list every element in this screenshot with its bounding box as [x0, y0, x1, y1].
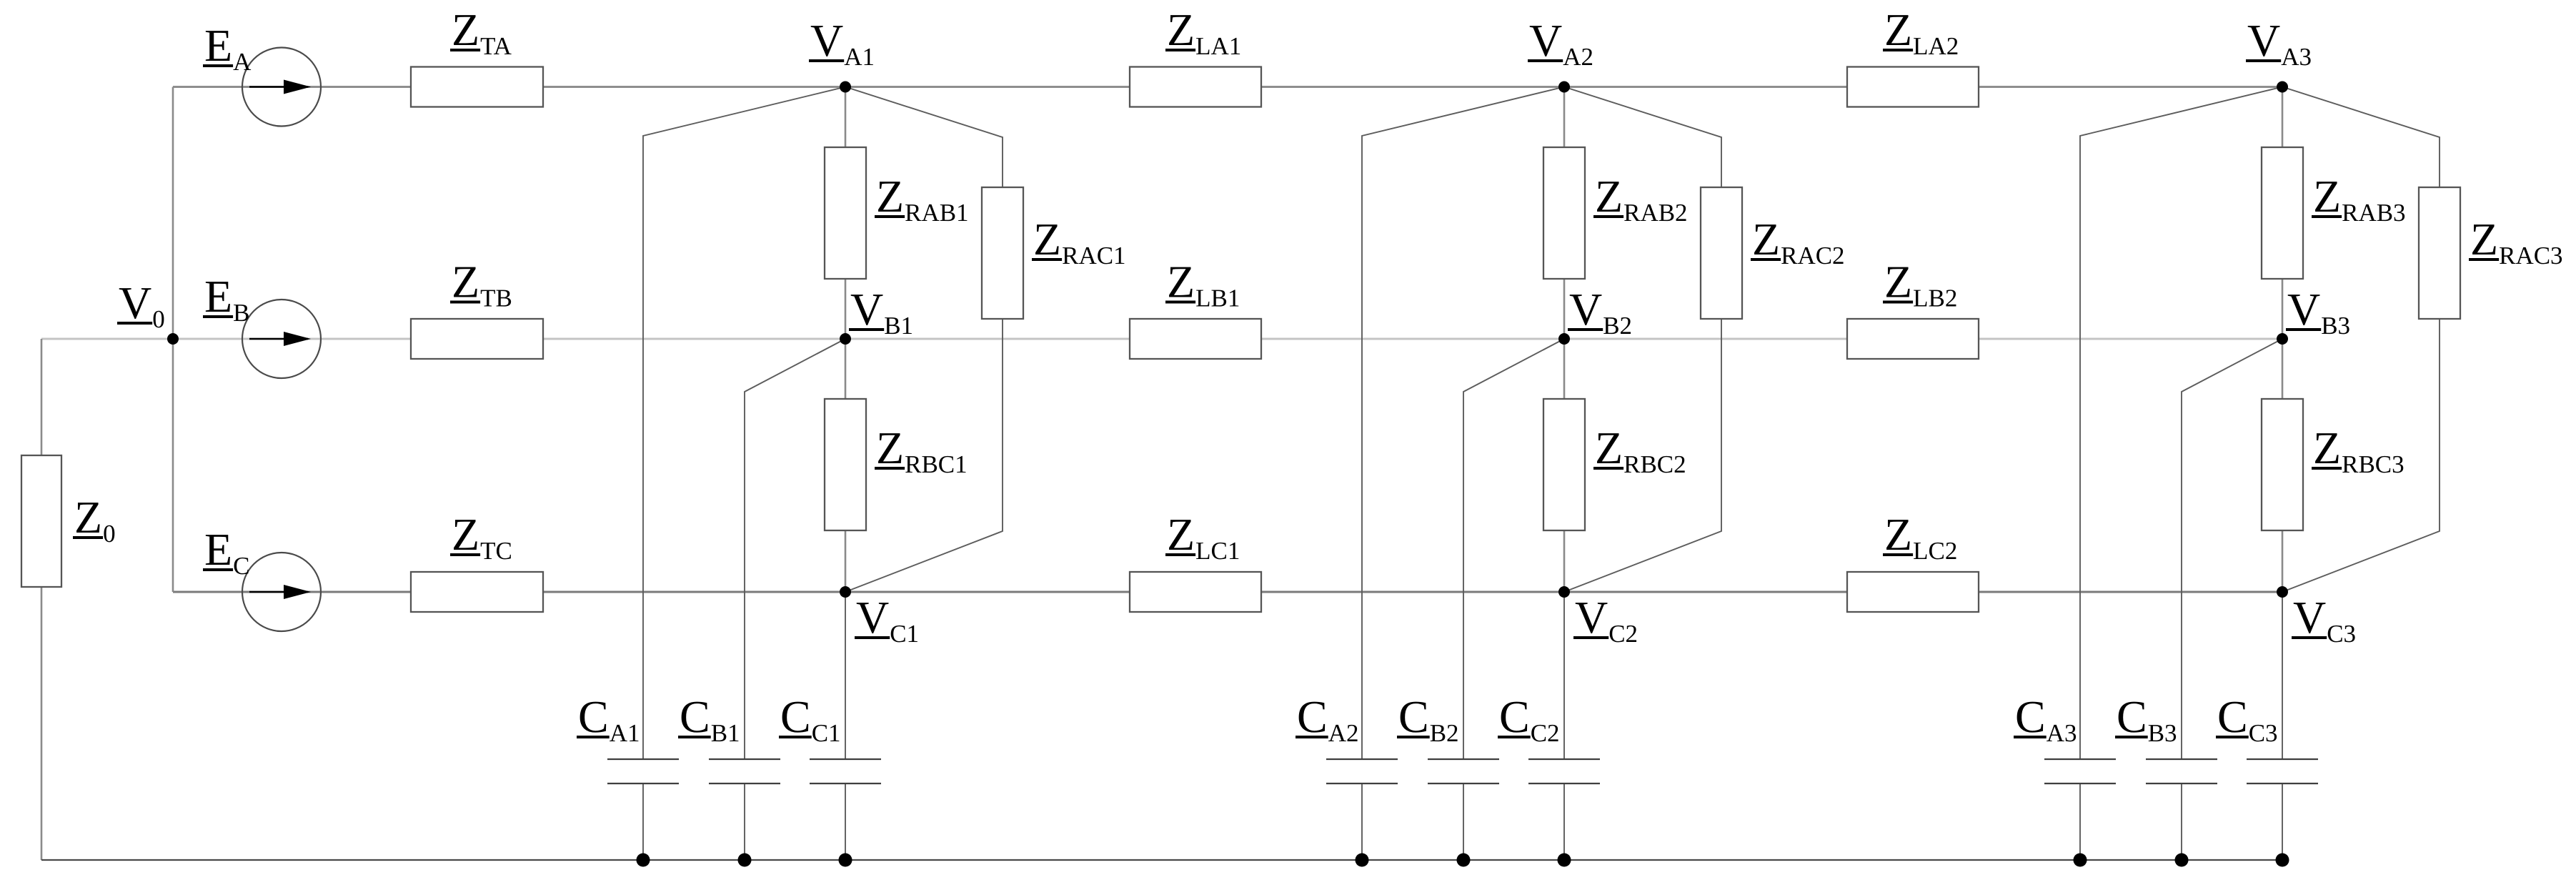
resistive load Z_RAB1	[825, 147, 969, 279]
junction C_B3 on rail	[2175, 854, 2189, 867]
svg-text:Z: Z	[1884, 257, 1912, 307]
svg-text:C2: C2	[1531, 719, 1560, 747]
junction C_A3 on rail	[2074, 854, 2087, 867]
svg-text:E: E	[204, 20, 232, 71]
wire capacitor C_C3 drop	[2282, 592, 2283, 759]
wire Z_RAC1 branch (diagonals and vertical)	[845, 87, 1003, 593]
svg-text:V: V	[2247, 15, 2280, 66]
junction C_B2 on rail	[1457, 854, 1471, 867]
svg-text:C: C	[2015, 691, 2046, 742]
wire node column 3 (A-B-C)	[2282, 87, 2284, 593]
wire capacitor C_B2 to rail	[1463, 783, 1464, 860]
svg-text:LB2: LB2	[1913, 285, 1957, 312]
node V_C2	[1558, 586, 1638, 648]
svg-text:E: E	[204, 524, 232, 575]
svg-text:V: V	[856, 592, 889, 643]
svg-text:TC: TC	[480, 537, 512, 565]
svg-text:B2: B2	[1603, 312, 1632, 340]
svg-text:Z: Z	[1595, 422, 1623, 473]
svg-text:A1: A1	[844, 43, 875, 71]
impedance Z_TB	[411, 257, 543, 360]
wire capacitor C_B1 to rail	[744, 783, 745, 860]
impedance Z_TC	[411, 509, 543, 612]
wire capacitor C_A2 drop	[1362, 87, 1564, 760]
junction C_C1 on rail	[839, 854, 852, 867]
svg-text:C: C	[1499, 691, 1530, 742]
node V_B3	[2277, 284, 2350, 345]
svg-text:RAC3: RAC3	[2499, 242, 2562, 270]
capacitor C_C1	[779, 691, 881, 783]
svg-text:RBC1: RBC1	[905, 450, 968, 478]
wire capacitor C_C2 to rail	[1563, 783, 1565, 860]
node V_B1	[840, 284, 913, 345]
svg-text:V: V	[2293, 592, 2326, 643]
impedance Z_0	[21, 455, 116, 587]
line impedance Z_LC1	[1130, 509, 1261, 612]
svg-text:C: C	[578, 691, 609, 742]
svg-text:B1: B1	[711, 719, 740, 747]
svg-text:E: E	[204, 271, 232, 322]
svg-text:A: A	[233, 48, 252, 76]
svg-text:V: V	[2287, 284, 2320, 335]
svg-text:Z: Z	[1884, 4, 1912, 55]
junction C_B1 on rail	[738, 854, 752, 867]
svg-text:Z: Z	[876, 171, 904, 222]
capacitor C_C3	[2216, 691, 2318, 783]
node V_C1	[840, 586, 919, 648]
svg-text:RBC3: RBC3	[2342, 450, 2405, 478]
svg-text:C: C	[233, 552, 249, 580]
line impedance Z_LC2	[1847, 509, 1979, 612]
svg-text:A2: A2	[1563, 43, 1593, 71]
svg-text:Z: Z	[1033, 214, 1061, 264]
junction C_C2 on rail	[1558, 854, 1571, 867]
capacitor C_A2	[1296, 691, 1398, 783]
svg-text:Z: Z	[452, 509, 479, 560]
svg-text:A3: A3	[2281, 43, 2312, 71]
svg-text:C: C	[1398, 691, 1429, 742]
svg-text:C: C	[780, 691, 811, 742]
svg-text:Z: Z	[452, 257, 479, 307]
node V_C3	[2277, 586, 2356, 648]
svg-text:V: V	[1575, 592, 1608, 643]
node V_A2	[1528, 15, 1593, 93]
capacitor C_B1	[678, 691, 780, 783]
svg-text:V: V	[119, 277, 151, 328]
line impedance Z_LB1	[1130, 257, 1261, 360]
wire capacitor C_A1 to rail	[642, 783, 644, 860]
voltage source E_C	[203, 524, 321, 631]
svg-text:C3: C3	[2327, 620, 2356, 648]
svg-text:Z: Z	[876, 422, 904, 473]
resistive load Z_RAC2	[1701, 187, 1845, 319]
resistive load Z_RAB2	[1543, 147, 1688, 279]
svg-text:Z: Z	[1167, 257, 1195, 307]
svg-text:RAB3: RAB3	[2342, 199, 2405, 227]
svg-text:0: 0	[103, 520, 116, 548]
svg-text:Z: Z	[1884, 509, 1912, 560]
svg-text:LB1: LB1	[1195, 285, 1240, 312]
svg-text:LC1: LC1	[1195, 537, 1240, 565]
wire capacitor C_A3 to rail	[2079, 783, 2081, 860]
resistive load Z_RAC3	[2419, 187, 2563, 319]
svg-text:LA1: LA1	[1195, 32, 1241, 60]
svg-text:V: V	[850, 284, 883, 335]
wire capacitor C_C2 drop	[1563, 592, 1565, 759]
svg-text:A3: A3	[2047, 719, 2077, 747]
svg-text:B3: B3	[2321, 312, 2350, 340]
wire phase line C	[173, 591, 2282, 593]
wire capacitor C_C1 drop	[845, 592, 846, 759]
impedance Z_TA	[411, 4, 543, 107]
wire Z_RAC2 branch (diagonals and vertical)	[1564, 87, 1721, 593]
capacitor C_B2	[1397, 691, 1499, 783]
svg-text:RAB1: RAB1	[905, 199, 968, 227]
wire node column 1 (A-B-C)	[845, 87, 847, 593]
svg-text:RAC1: RAC1	[1062, 242, 1125, 270]
svg-text:TB: TB	[480, 285, 512, 312]
resistive load Z_RBC3	[2262, 399, 2405, 530]
node V_0	[117, 277, 179, 345]
resistive load Z_RBC1	[825, 399, 968, 530]
junction C_C3 on rail	[2276, 854, 2289, 867]
voltage source E_A	[203, 20, 321, 127]
svg-text:RBC2: RBC2	[1623, 450, 1686, 478]
wire capacitor C_A2 to rail	[1361, 783, 1363, 860]
capacitor C_C2	[1498, 691, 1600, 783]
voltage source E_B	[203, 271, 321, 378]
wire phase line B	[41, 338, 2282, 340]
svg-text:Z: Z	[1167, 509, 1195, 560]
svg-text:C: C	[2117, 691, 2147, 742]
wire Z_RAC3 branch (diagonals and vertical)	[2282, 87, 2440, 593]
svg-text:Z: Z	[2313, 171, 2341, 222]
wire capacitor C_A1 drop	[643, 87, 845, 760]
wire node column 2 (A-B-C)	[1563, 87, 1566, 593]
resistive load Z_RAC1	[982, 187, 1126, 319]
wire capacitor C_B3 to rail	[2181, 783, 2182, 860]
svg-text:Z: Z	[1595, 171, 1623, 222]
line impedance Z_LB2	[1847, 257, 1979, 360]
svg-text:Z: Z	[2470, 214, 2498, 264]
junction C_A2 on rail	[1356, 854, 1369, 867]
svg-text:Z: Z	[1752, 214, 1780, 264]
svg-text:C: C	[2217, 691, 2248, 742]
svg-text:C: C	[1297, 691, 1328, 742]
svg-text:C3: C3	[2249, 719, 2278, 747]
svg-text:Z: Z	[452, 4, 479, 55]
svg-text:B1: B1	[884, 312, 913, 340]
wire neutral bottom rail	[41, 859, 2282, 861]
svg-text:V: V	[1569, 284, 1602, 335]
capacitor C_B3	[2115, 691, 2217, 783]
wire capacitor C_B1 drop	[745, 339, 845, 759]
svg-text:C1: C1	[812, 719, 841, 747]
svg-text:B3: B3	[2148, 719, 2177, 747]
node V_A1	[809, 15, 875, 93]
wire capacitor C_C3 to rail	[2282, 783, 2283, 860]
capacitor C_A3	[2014, 691, 2116, 783]
svg-text:V: V	[1529, 15, 1562, 66]
svg-text:Z: Z	[74, 492, 102, 543]
svg-text:TA: TA	[480, 32, 512, 60]
node V_B2	[1558, 284, 1632, 345]
svg-text:B: B	[233, 299, 249, 327]
svg-text:C2: C2	[1608, 620, 1638, 648]
wire neutral left vertical	[41, 339, 43, 860]
line impedance Z_LA1	[1130, 4, 1261, 107]
svg-text:A2: A2	[1328, 719, 1359, 747]
wire capacitor C_A3 drop	[2080, 87, 2282, 760]
svg-text:Z: Z	[2313, 422, 2341, 473]
svg-text:C1: C1	[890, 620, 919, 648]
svg-text:C: C	[680, 691, 710, 742]
wire capacitor C_B2 drop	[1463, 339, 1564, 759]
junction C_A1 on rail	[637, 854, 650, 867]
svg-text:Z: Z	[1167, 4, 1195, 55]
line impedance Z_LA2	[1847, 4, 1979, 107]
wire capacitor C_C1 to rail	[845, 783, 846, 860]
svg-text:LA2: LA2	[1913, 32, 1959, 60]
resistive load Z_RBC2	[1543, 399, 1686, 530]
svg-text:V: V	[810, 15, 843, 66]
wire source feeder vertical	[172, 87, 174, 593]
svg-text:B2: B2	[1430, 719, 1459, 747]
svg-text:A1: A1	[610, 719, 640, 747]
node V_A3	[2246, 15, 2312, 93]
wire phase line A	[173, 86, 2282, 88]
svg-text:RAB2: RAB2	[1623, 199, 1687, 227]
svg-text:RAC2: RAC2	[1781, 242, 1844, 270]
svg-text:0: 0	[152, 305, 165, 333]
capacitor C_A1	[577, 691, 679, 783]
wire capacitor C_B3 drop	[2182, 339, 2282, 759]
resistive load Z_RAB3	[2262, 147, 2406, 279]
svg-text:LC2: LC2	[1913, 537, 1957, 565]
